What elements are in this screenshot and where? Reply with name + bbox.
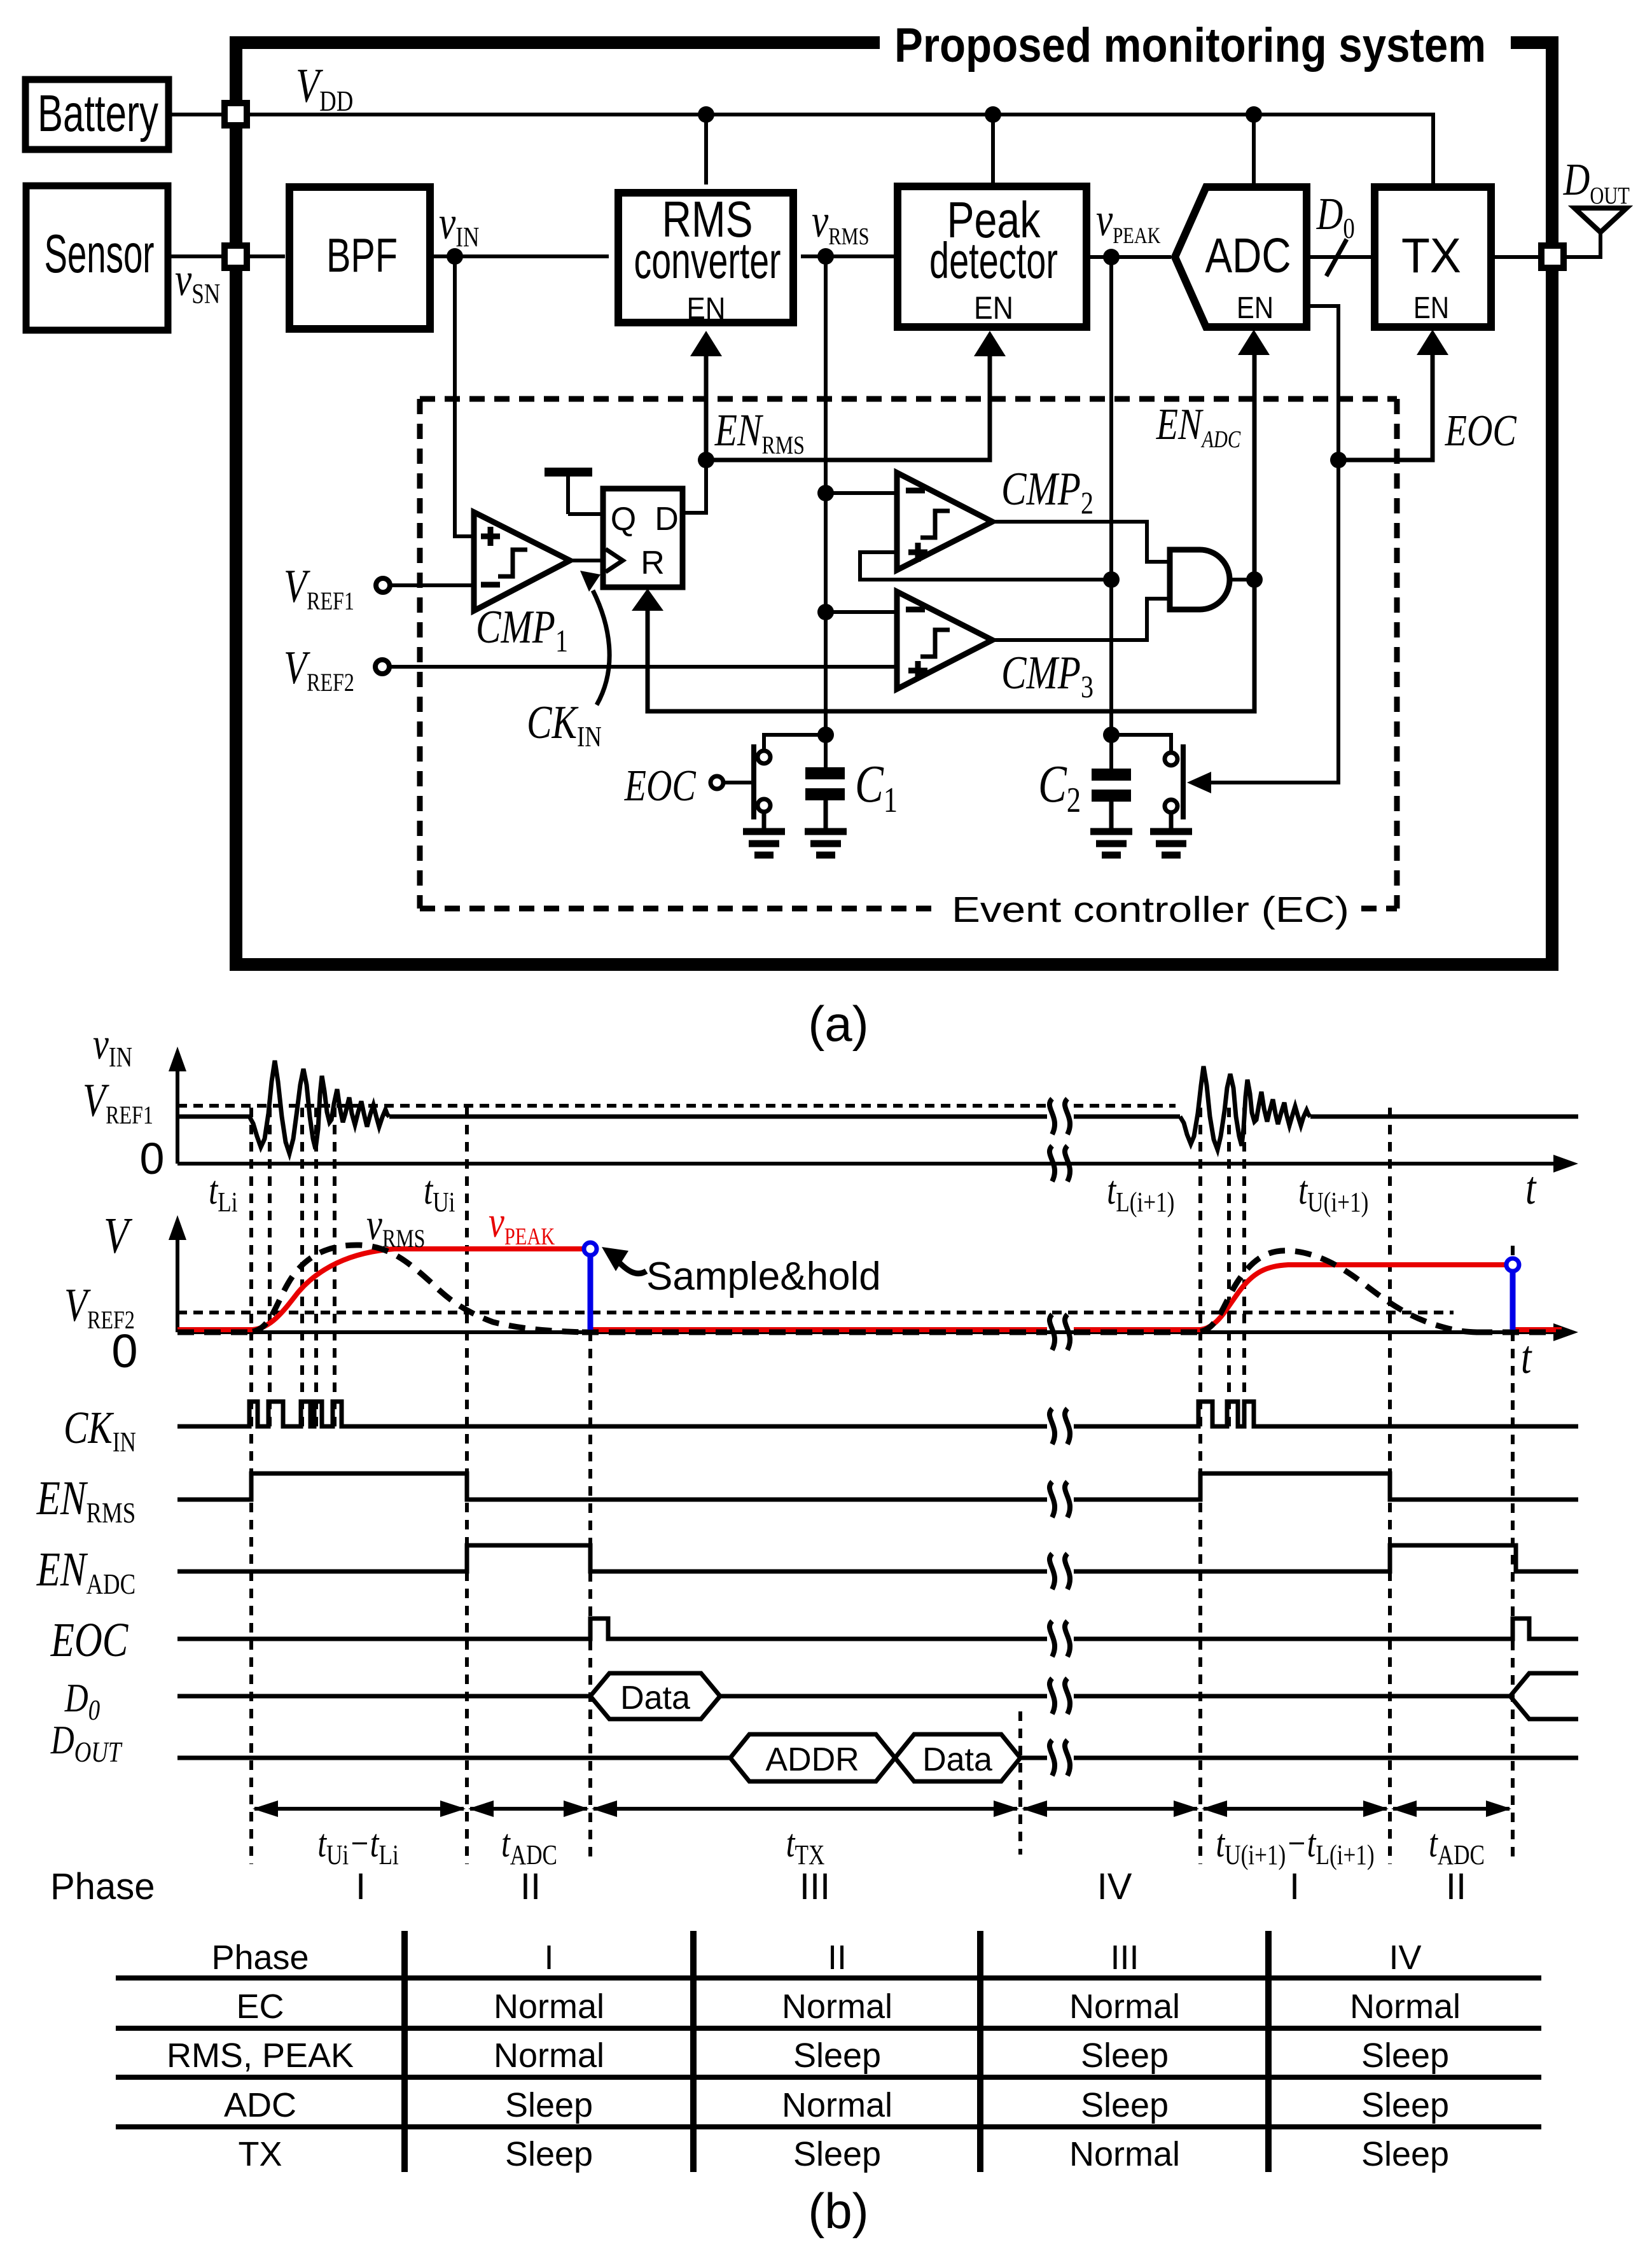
wire VREF1 to CMP1 minus input [390,583,474,587]
table header row [211,1939,1421,1977]
wire vRMS to CMP3 minus [826,610,897,614]
comparator CMP1 [474,512,570,611]
svg-text:II: II [828,1939,847,1977]
svg-text:Sleep: Sleep [1081,2037,1169,2075]
svg-text:II: II [1446,1866,1466,1907]
ground below S1 [743,832,785,855]
node dot VDD/ADC [1246,106,1262,123]
ground below C2 [1090,832,1132,855]
VDD rail [247,115,1433,183]
phase interval arrows [254,1807,1510,1811]
wire frame to antenna [1564,232,1600,257]
svg-text:EOC: EOC [624,761,697,810]
node dot C1 [817,727,834,743]
AND gate [1170,550,1230,609]
capacitor C2 [1092,769,1131,830]
svg-text:Sleep: Sleep [793,2135,881,2173]
DOUT ADDR hexagon [730,1734,895,1781]
wire CMP3 output to AND [992,599,1170,640]
D0 opening fork [1510,1673,1578,1719]
node square TX/frame tap [1541,246,1564,268]
wire EOC terminal to S1 [723,781,754,784]
waveform break marks [1050,1099,1070,1776]
wire ENADC to ADC EN arrow [1253,352,1257,580]
antenna [1574,208,1627,232]
svg-text:(a): (a) [808,996,868,1052]
svg-text:CMP3: CMP3 [1001,647,1093,704]
svg-text:detector: detector [929,232,1058,289]
battery block [25,80,169,150]
wire BPF to RMS converter [431,254,609,258]
svg-text:R: R [641,545,665,581]
svg-text:0: 0 [111,1325,137,1377]
node vRMS dot [817,248,834,265]
wire RMS to Peak detector [801,254,895,258]
svg-text:converter: converter [634,232,781,289]
svg-text:D: D [655,501,679,538]
flip-flop U1 [603,489,683,587]
node dot vPEAK/CMP2 loop [1103,571,1120,588]
wire battery to frame [169,113,230,116]
svg-text:t: t [1521,1332,1532,1384]
sensor block [26,186,168,330]
svg-text:CMP1: CMP1 [476,601,568,658]
wire DFF D to ENRMS node [683,460,706,513]
svg-text:Data: Data [620,1680,690,1716]
svg-text:I: I [1289,1866,1300,1907]
vIN flat segment [389,1115,1180,1119]
wire EOC to TX EN arrow [1338,354,1433,460]
wire Peak to ADC [1085,255,1171,259]
svg-text:Phase: Phase [50,1866,155,1907]
table grid vertical lines [405,1931,1268,2172]
node vIN dot [447,248,463,265]
node square battery/frame tap [225,103,247,125]
node dot ENADC [1246,571,1263,588]
black dashed vRMS curve [177,1245,1562,1332]
svg-text:Normal: Normal [1069,2135,1180,2173]
D0 Data hexagon [590,1673,720,1719]
svg-text:CMP2: CMP2 [1001,463,1093,520]
svg-text:Proposed monitoring system: Proposed monitoring system [894,18,1486,73]
svg-text:ADC: ADC [1205,228,1291,283]
bus slash D0 [1326,239,1347,276]
svg-text:Sleep: Sleep [1361,2037,1449,2075]
VREF2 dashed level [177,1311,1454,1314]
svg-text:Sleep: Sleep [505,2086,593,2124]
svg-text:Normal: Normal [1350,1988,1461,2026]
svg-text:EN: EN [1237,291,1274,325]
node dot EOC [1330,452,1347,468]
wire vRMS vertical [824,256,828,735]
svg-text:Normal: Normal [494,2037,604,2075]
wire ENRMS to RMS EN arrow [704,354,709,460]
svg-text:Sample&hold: Sample&hold [646,1255,881,1299]
svg-text:III: III [800,1866,830,1907]
svg-text:TX: TX [238,2135,282,2173]
svg-text:EC: EC [236,1988,284,2026]
wire vPEAK vertical [1109,257,1113,770]
node square sensor/frame tap [225,246,247,268]
svg-text:EN: EN [974,290,1013,326]
node dot vRMS/CMP3 [817,604,834,620]
wire S1 to ground [762,812,767,830]
svg-text:II: II [520,1866,541,1907]
table row RMS PEAK [167,2037,1449,2075]
svg-text:V: V [104,1207,133,1264]
RMS converter block [618,191,793,326]
ground below S2 [1150,832,1192,855]
comparator CMP3 [897,592,992,689]
wire VDD to RMS [704,115,708,185]
wire AND output [1230,578,1254,581]
wire CMP2 plus loop to vPEAK [860,552,1111,580]
wire ADC EOC output [1307,306,1338,460]
plot vIN axes [177,1057,1562,1164]
wire sensor to BPF [168,254,285,258]
wire S2 to ground [1169,812,1174,830]
svg-text:I: I [356,1866,366,1907]
node dot vRMS/CMP2 [817,485,834,501]
svg-text:IV: IV [1389,1939,1421,1977]
terminal VREF2 [375,660,389,674]
table grid horizontal lines [116,1978,1541,2127]
svg-text:ADC: ADC [224,2086,296,2124]
node dot VDD/Peak [985,106,1001,123]
wire VREF2 to CMP3 plus input [389,665,897,669]
svg-text:Normal: Normal [1069,1988,1180,2026]
svg-text:BPF: BPF [326,228,398,282]
svg-text:Sensor: Sensor [45,224,155,284]
TX block [1375,187,1491,327]
svg-text:Normal: Normal [494,1988,604,2026]
svg-text:Data: Data [922,1741,992,1778]
wire VDD to Peak [991,115,995,185]
svg-text:Battery: Battery [38,85,158,143]
red curve vPEAK [177,1249,1562,1330]
svg-text:(b): (b) [808,2183,868,2239]
wire vRMS to CMP2 minus [826,491,897,495]
svg-text:Event controller (EC): Event controller (EC) [952,889,1349,930]
outer thick frame of proposed monitoring system [236,43,1552,964]
terminal EOC [711,776,723,789]
DOUT Data hexagon [895,1734,1020,1781]
svg-text:IV: IV [1097,1866,1132,1907]
Peak detector block [898,186,1086,327]
node dot C2 [1103,727,1120,743]
vIN burst i [249,1061,389,1153]
svg-text:Sleep: Sleep [793,2037,881,2075]
svg-text:EN: EN [687,292,726,326]
annotation arrow to sample point [619,1262,646,1274]
svg-text:t: t [1525,1162,1537,1215]
wire CMP2 output to AND [992,522,1170,562]
VREF1 dashed level [177,1104,1176,1108]
svg-text:Normal: Normal [782,1988,892,2026]
vIN burst i+1 [1180,1066,1310,1150]
table row ADC [224,2086,1449,2124]
ADC block [1175,187,1307,327]
table row EC [236,1988,1461,2026]
EC dashed box [420,399,1397,909]
capacitor C1 [805,735,845,830]
wire C1 node to switch S1 [764,735,826,751]
svg-text:Q: Q [611,501,636,538]
svg-text:I: I [544,1939,553,1977]
svg-text:Sleep: Sleep [505,2135,593,2173]
wire vIN down to CMP1 plus input [455,256,474,536]
wire CMP1 output to DFF clock [570,559,603,562]
svg-text:Normal: Normal [782,2086,892,2124]
annotation arrow CKIN [593,590,609,705]
wire ADC to TX [1307,255,1371,259]
terminal VREF1 [376,578,390,592]
node dot VDD/RMS [698,106,714,123]
switch S2 (EOC sample of C2) [1165,744,1183,819]
comparator CMP2 [897,473,992,570]
ground below C1 [805,832,847,855]
blue sample line i [588,1252,593,1330]
svg-text:Phase: Phase [211,1939,309,1977]
vIN flat tail [1310,1115,1578,1119]
svg-text:III: III [1110,1939,1139,1977]
plot V axes [177,1226,1562,1332]
blue sample line i+1 [1510,1268,1516,1330]
svg-text:EN: EN [1413,291,1449,325]
svg-text:ADDR: ADDR [765,1741,859,1778]
svg-text:EOC: EOC [1445,406,1517,455]
vIN baseline with bursts [177,1115,249,1119]
wire EOC down to C2 switch [1210,460,1338,783]
svg-text:RMS, PEAK: RMS, PEAK [167,2037,354,2075]
svg-text:Sleep: Sleep [1361,2086,1449,2124]
table row TX [238,2135,1449,2173]
svg-text:Sleep: Sleep [1081,2086,1169,2124]
wire ENRMS to Peak EN arrow [706,354,990,460]
wire TX to frame [1491,255,1552,259]
svg-text:Sleep: Sleep [1361,2135,1449,2173]
svg-text:EOC: EOC [50,1613,128,1667]
switch S1 (EOC reset of C1) [754,744,770,819]
svg-text:TX: TX [1401,228,1461,283]
wire C2 node to switch S2 [1111,735,1171,753]
timing dashed verticals [251,1108,1513,1864]
svg-text:0: 0 [140,1134,165,1183]
wire VDD to ADC [1252,115,1256,183]
tie-high symbol [545,472,603,514]
wire DFF R reset line from AND output [648,580,1254,711]
BPF block [289,187,430,329]
node vPEAK dot [1103,249,1120,265]
node dot ENRMS [698,452,714,468]
